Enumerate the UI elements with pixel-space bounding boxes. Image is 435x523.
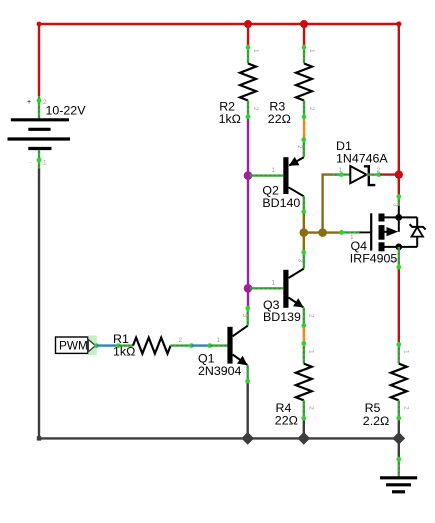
wire top rail to R2 (red) [247,24,249,45]
wire R1 to Q1 base (blue) [192,344,210,346]
svg-text:2.2Ω: 2.2Ω [363,414,390,428]
svg-text:1: 1 [308,350,315,354]
node junction bottom R4 [297,432,310,445]
svg-text:3: 3 [392,203,399,207]
node junction top of R3 [300,20,308,28]
svg-text:1: 1 [403,350,410,354]
svg-text:BD139: BD139 [263,310,301,324]
svg-text:1kΩ: 1kΩ [219,112,241,126]
wire top rail [39,23,399,25]
svg-text:2: 2 [403,406,410,410]
svg-text:2N3904: 2N3904 [198,364,242,378]
svg-text:2: 2 [377,167,381,174]
svg-text:2: 2 [179,337,183,344]
svg-text:1: 1 [308,49,315,53]
svg-text:3: 3 [297,259,304,263]
svg-text:2: 2 [308,406,315,410]
wire PWM to R1 (blue) [97,344,119,346]
svg-text:IRF4905: IRF4905 [350,252,398,266]
wire bottom rail [39,437,399,439]
svg-text:1: 1 [272,280,276,287]
svg-text:1: 1 [43,160,47,167]
svg-text:2: 2 [296,145,303,149]
node junction bottom R5 [392,432,405,445]
svg-text:1: 1 [339,167,343,174]
transistor Q1 2N3904 [198,306,250,384]
node output junction at D1 branch (brown) [318,228,327,237]
svg-text:22Ω: 22Ω [275,414,298,428]
node junction top of R2 [244,20,252,28]
wire right rail down to D1 cathode [398,24,400,175]
wire R4 to bottom rail (black) [303,420,305,438]
svg-text:3: 3 [241,314,248,318]
svg-text:1N4746A: 1N4746A [336,151,388,165]
mosfet Q4 IRF4905 [339,194,425,269]
node output junction at Q2/Q3 (brown) [300,228,309,237]
svg-text:2: 2 [252,107,259,111]
svg-text:BD140: BD140 [262,196,300,210]
resistor R2 1k [219,45,259,126]
ground [380,438,417,491]
svg-text:1: 1 [252,49,259,53]
resistor R1 1k [113,332,194,358]
svg-text:-: - [30,159,32,166]
wire Q1 emitter to bottom rail (black) [246,383,248,438]
node junction Q2 base (purple) [244,171,253,180]
connector PWM input [56,336,99,356]
wire Q2 base node to Q3 base node (purple) [247,176,249,289]
wire battery negative to bottom-left corner [37,169,41,441]
node junction Q3 base (purple) [244,284,253,293]
svg-text:10-22V: 10-22V [46,104,87,118]
svg-text:PWM: PWM [59,339,88,353]
diode D1 1N4746A (zener) [330,139,388,185]
wire V+ battery to top-left corner [37,22,42,96]
wire Q4 source to R5 (red) [398,269,400,342]
node junction D1 cathode (red) [380,170,403,178]
resistor R4 22ohm [275,341,315,428]
wire Q2 collector to output node (brown) [303,214,305,233]
wire R3 to Q2 emitter (orange) [303,119,305,138]
resistor R5 2.2ohm [363,342,410,428]
wire top rail to R3 (red) [303,24,305,45]
node top-right corner [396,21,401,26]
wire R2 to Q2 base node (purple) [247,119,249,176]
svg-text:1: 1 [272,167,276,174]
wire Q3 base node to Q1 collector (purple) [247,288,249,306]
wire output node to D1 anode and Q4 gate (brown) [304,175,341,233]
resistor R3 22ohm [268,45,315,126]
wire D1 node to Q4 drain (red) [398,175,400,195]
wire Q3 emitter to R4 (orange) [303,328,305,342]
wire R5 to bottom rail (black) [398,420,400,438]
svg-text:22Ω: 22Ω [268,112,291,126]
svg-text:2: 2 [308,107,315,111]
svg-text:1kΩ: 1kΩ [113,345,135,359]
battery BAT1 10-22V [8,96,87,169]
svg-text:+: + [27,99,31,106]
node junction bottom Q1 emitter [241,432,254,445]
transistor Q2 BD140 [250,137,306,214]
svg-text:2: 2 [308,314,315,318]
transistor Q3 BD139 [250,233,315,328]
svg-text:1: 1 [217,337,221,344]
